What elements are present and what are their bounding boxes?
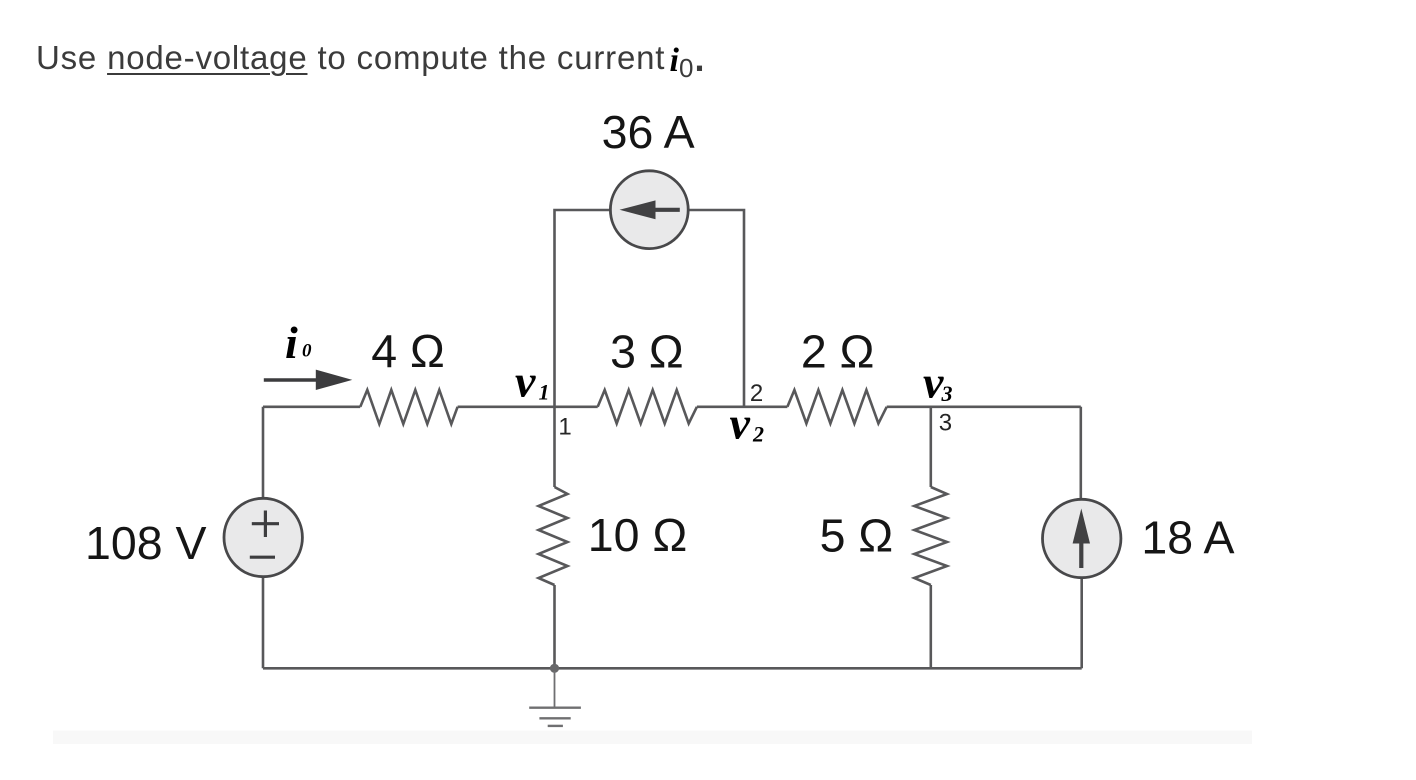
current source I1 36A circle [610, 171, 688, 249]
svg-text:2: 2 [752, 422, 764, 447]
wire top-right branch of 36A loop [689, 210, 744, 407]
svg-text:i: i [670, 42, 680, 79]
voltage source V1 plus sign [252, 511, 279, 538]
resistor R 2ohm [787, 390, 886, 424]
voltage source V1 minus sign [250, 556, 275, 559]
svg-text:1: 1 [558, 414, 571, 441]
current source I1 arrow (points left) [620, 200, 680, 219]
wire main horizontal left segment [263, 405, 360, 408]
wire main horizontal right segment [887, 405, 1081, 408]
title [36, 41, 665, 74]
wire 10ohm branch top [553, 407, 556, 487]
svg-text:0: 0 [302, 341, 312, 362]
current source I2 arrow (points up) [1073, 509, 1090, 569]
wire 5ohm branch bottom [929, 585, 932, 668]
wire right vertical top [1080, 407, 1083, 500]
wire left vertical top [262, 407, 265, 499]
svg-text:10 Ω: 10 Ω [588, 509, 687, 561]
wire left vertical bottom [262, 577, 265, 669]
svg-text:i: i [285, 317, 298, 368]
svg-text:v: v [515, 356, 536, 407]
svg-text:36 A: 36 A [602, 106, 695, 158]
wire bottom horizontal [263, 667, 1082, 670]
svg-text:v: v [730, 398, 751, 449]
svg-text:.: . [695, 38, 705, 79]
ground bar 1 [529, 707, 581, 709]
resistor R 10ohm [539, 487, 568, 585]
wire 10ohm branch bottom [553, 585, 556, 668]
svg-text:3: 3 [941, 381, 953, 406]
wire 5ohm branch top [929, 407, 932, 487]
voltage source V1 108V circle [224, 498, 302, 576]
wire between 4ohm and 3ohm [458, 405, 598, 408]
svg-text:108 V: 108 V [85, 517, 207, 569]
resistor R 5ohm [914, 487, 947, 585]
resistor R 4ohm [360, 390, 457, 424]
svg-text:0: 0 [679, 53, 693, 83]
svg-text:2: 2 [750, 380, 763, 407]
wire top-left branch of 36A loop [555, 210, 611, 407]
wire right vertical bottom [1080, 578, 1083, 669]
junction dot at ground node [550, 664, 559, 673]
resistor R 3ohm [598, 390, 697, 424]
wire between 3ohm and 2ohm [697, 405, 788, 408]
ground bar 3 [548, 725, 563, 727]
svg-text:2 Ω: 2 Ω [801, 325, 875, 377]
ground stub [554, 671, 556, 707]
svg-text:3 Ω: 3 Ω [610, 326, 684, 378]
svg-text:3: 3 [939, 410, 952, 437]
svg-text:5 Ω: 5 Ω [820, 510, 894, 562]
svg-text:1: 1 [539, 380, 550, 405]
ground bar 2 [539, 717, 570, 719]
svg-text:4 Ω: 4 Ω [371, 325, 445, 377]
svg-text:18 A: 18 A [1141, 512, 1234, 564]
current source I2 18A circle [1043, 499, 1121, 577]
arrow for i0 [264, 370, 353, 390]
